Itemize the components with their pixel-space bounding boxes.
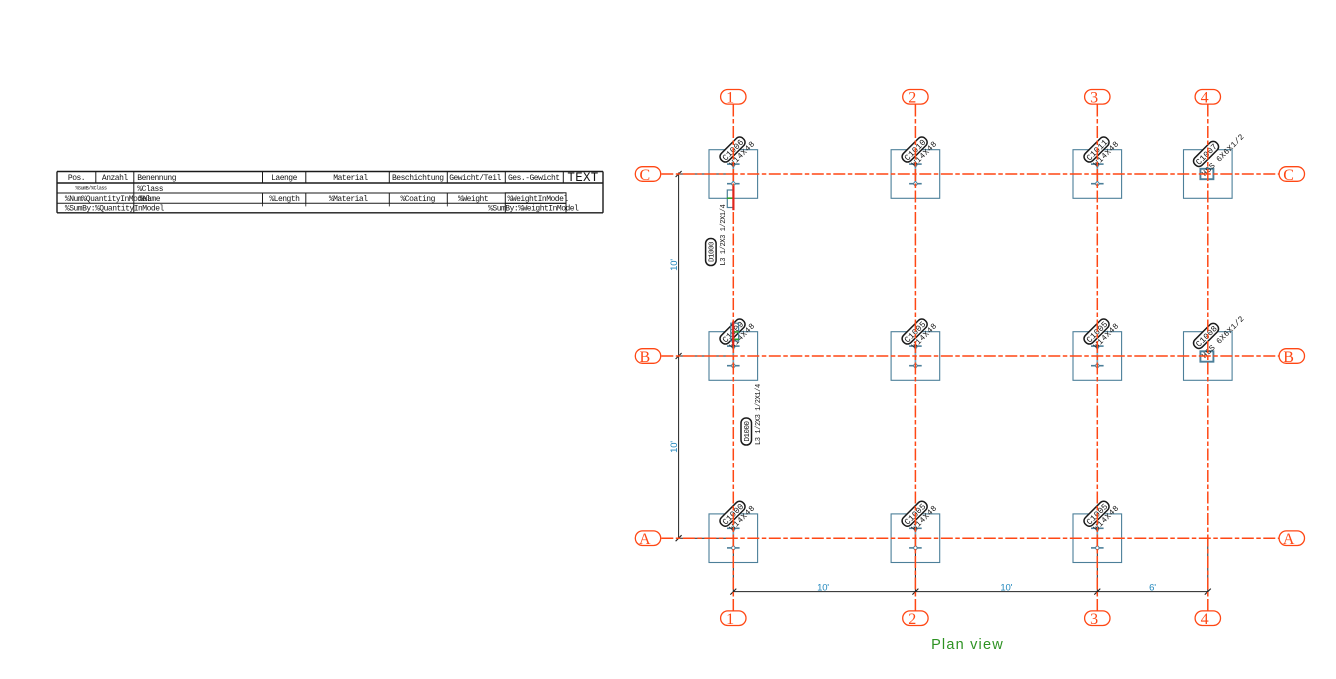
W-column A2 section symbol (909, 528, 922, 550)
W-column B2 section symbol (909, 346, 922, 368)
svg-text:L3 1/2X3 1/2X1/4: L3 1/2X3 1/2X1/4 (720, 204, 728, 265)
grid line C (661, 173, 1278, 175)
column C1007 at grid intersection (1190, 123, 1246, 179)
svg-text:4: 4 (1201, 611, 1209, 628)
column C1005 at grid intersection (900, 314, 939, 353)
svg-text:10': 10' (669, 441, 680, 453)
footing C4 pad outline (1184, 150, 1233, 199)
grid line B (661, 355, 1278, 357)
svg-text:6': 6' (1149, 583, 1156, 594)
left dimension line (679, 173, 1208, 592)
column C1008 at grid intersection (1190, 305, 1246, 361)
grid bubble 4 top (1195, 90, 1220, 107)
svg-text:A: A (1283, 531, 1295, 548)
footing A2 pad outline (891, 514, 940, 563)
dimension extension lines (679, 174, 1208, 592)
dimension ticks (676, 171, 1211, 595)
brace label D1000 (C-B) (706, 204, 728, 265)
svg-text:L3 1/2X3 1/2X1/4: L3 1/2X3 1/2X1/4 (755, 384, 763, 445)
svg-text:Gewicht/Teil: Gewicht/Teil (449, 174, 501, 183)
svg-text:1: 1 (726, 611, 734, 628)
grid bubble 1 bottom (721, 611, 746, 628)
footing B2 pad outline (891, 332, 940, 381)
svg-text:C: C (1283, 167, 1294, 184)
grid bubble B right (1279, 349, 1304, 366)
svg-text:%SumBy:%QuantityInModel: %SumBy:%QuantityInModel (65, 205, 165, 214)
parts list table (57, 172, 603, 213)
grid bubble C right (1279, 167, 1304, 184)
column C1006 at grid intersection (718, 132, 757, 171)
grid bubble 2 top (903, 90, 928, 107)
svg-text:10': 10' (669, 259, 680, 271)
W-column A3 section symbol (1091, 528, 1104, 550)
svg-text:10': 10' (1000, 583, 1012, 594)
svg-text:%Material: %Material (329, 195, 368, 204)
svg-text:%SumB/%Class: %SumB/%Class (75, 185, 107, 191)
brace end detail at B1 (731, 323, 739, 341)
footing A3 pad outline (1073, 514, 1122, 563)
svg-text:10': 10' (817, 583, 829, 594)
grid bubble 3 bottom (1085, 611, 1110, 628)
svg-text:2: 2 (908, 611, 916, 628)
svg-text:%Class: %Class (137, 185, 164, 194)
column C1005 at grid intersection (1082, 314, 1121, 353)
svg-text:%SumBy:%WeightInModel: %SumBy:%WeightInModel (488, 205, 579, 214)
W-column C3 section symbol (1091, 164, 1104, 186)
footing B1 pad outline (709, 332, 758, 381)
svg-text:D1000: D1000 (709, 241, 717, 262)
svg-text:%Num: %Num (65, 195, 83, 204)
grid line 1 (732, 105, 734, 611)
grid line 4 (1207, 105, 1209, 611)
W-column C1 section symbol (727, 164, 740, 186)
footing C3 pad outline (1073, 150, 1122, 199)
svg-text:Ges.-Gewicht: Ges.-Gewicht (508, 174, 560, 183)
grid bubble A left (635, 531, 660, 548)
svg-text:%WeightInModel: %WeightInModel (508, 195, 569, 204)
W-column A1 section symbol (727, 528, 740, 550)
svg-text:%Length: %Length (269, 195, 300, 204)
svg-text:Material: Material (333, 174, 368, 183)
grid bubble B left (635, 349, 660, 366)
svg-text:3: 3 (1090, 90, 1098, 107)
grid bubble 1 top (721, 90, 746, 107)
column C1009 at grid intersection (718, 314, 757, 353)
HSS column C4 tube outline (1200, 169, 1213, 179)
grid line 3 (1096, 105, 1098, 611)
W-column C2 section symbol (909, 164, 922, 186)
svg-text:%Coating: %Coating (400, 195, 435, 204)
svg-text:D1000: D1000 (744, 421, 752, 442)
grid line A (661, 537, 1278, 539)
svg-text:Anzahl: Anzahl (102, 174, 129, 183)
footing A1 pad outline (709, 514, 758, 563)
svg-text:A: A (639, 531, 651, 548)
grid bubble 4 bottom (1195, 611, 1220, 628)
svg-text:Pos.: Pos. (68, 174, 85, 183)
W-column B3 section symbol (1091, 346, 1104, 368)
grid bubble 2 bottom (903, 611, 928, 628)
red brace line at B1 (732, 322, 734, 346)
svg-text:2: 2 (908, 90, 916, 107)
column C1005 at grid intersection (900, 496, 939, 535)
svg-text:Beschichtung: Beschichtung (392, 174, 444, 183)
grid bubble 3 top (1085, 90, 1110, 107)
svg-text:3: 3 (1090, 611, 1098, 628)
svg-text:B: B (1283, 349, 1294, 366)
column C1000 at grid intersection (718, 496, 757, 535)
footing B3 pad outline (1073, 332, 1122, 381)
W-column B1 section symbol (727, 346, 740, 368)
svg-text:C: C (639, 167, 650, 184)
svg-text:Benennung: Benennung (137, 174, 176, 183)
footing C2 pad outline (891, 150, 940, 199)
HSS column B4 tube outline (1200, 351, 1213, 361)
brace label D1000 (B-A) (741, 384, 763, 445)
svg-text:TEXT: TEXT (567, 171, 598, 185)
red brace line at C1 (732, 186, 734, 210)
svg-text:%Weight: %Weight (458, 195, 488, 204)
grid line 2 (914, 105, 916, 611)
svg-text:Laenge: Laenge (271, 174, 298, 183)
svg-text:1: 1 (726, 90, 734, 107)
brace end detail at C1 (727, 190, 734, 208)
svg-text:Plan view: Plan view (931, 637, 1004, 653)
grid bubble C left (635, 167, 660, 184)
svg-text:4: 4 (1201, 90, 1209, 107)
footing B4 pad outline (1184, 332, 1233, 381)
footing C1 pad outline (709, 150, 758, 199)
column C1005 at grid intersection (1082, 496, 1121, 535)
column C1010 at grid intersection (900, 132, 939, 171)
grid bubble A right (1279, 531, 1304, 548)
column C1011 at grid intersection (1082, 132, 1121, 171)
svg-text:%Name: %Name (139, 195, 161, 204)
svg-text:B: B (639, 349, 650, 366)
